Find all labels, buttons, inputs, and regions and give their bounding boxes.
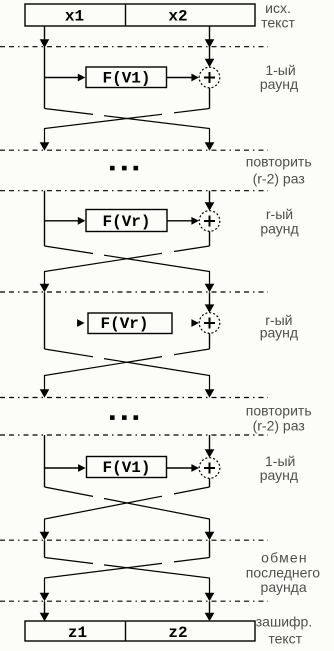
xor2 circle: [199, 211, 220, 232]
separator D4: [0, 291, 268, 293]
arrow crossing1 left end: [40, 142, 50, 151]
note repeat r-2 dec: [246, 402, 312, 433]
wire right rail top: [209, 26, 211, 59]
svg-text:повторить: повторить: [246, 402, 312, 418]
wire left rail round2: [44, 191, 46, 246]
wire F1 input: [45, 77, 79, 79]
arrow crossing5 left end: [40, 593, 50, 602]
wire crossing4 left-to-right: [45, 487, 210, 532]
xor1 plus: [204, 72, 215, 83]
wire right rail round3: [209, 292, 211, 304]
wire crossing4 right-to-left: [45, 487, 210, 532]
arrow F2 to xor2: [191, 217, 199, 225]
arrow crossing3 right end: [205, 389, 215, 398]
svg-text:раунд: раунд: [260, 221, 298, 237]
wire left rail round3: [44, 292, 46, 349]
svg-text:текст: текст: [261, 14, 295, 30]
xor4 plus: [204, 463, 215, 474]
arrow F1 to xor1: [191, 74, 199, 82]
svg-text:F(Vr): F(Vr): [102, 213, 150, 231]
note ciphertext: [256, 613, 312, 646]
xor3 plus: [204, 318, 215, 329]
xor2 plus: [204, 216, 215, 227]
arrow right into z box: [205, 613, 215, 622]
wire right stub to z box: [209, 601, 211, 613]
separator D1: [0, 46, 268, 48]
arrow into xor3: [205, 304, 215, 313]
note round 1 dec: [260, 453, 298, 483]
wire crossing1 left-to-right: [45, 109, 210, 143]
wire F2 input: [45, 220, 79, 222]
arrow into F1: [78, 74, 86, 82]
ellipsis dots B: [110, 415, 138, 420]
separator D7: [0, 539, 268, 541]
box z1z2 (ciphertext register): [25, 621, 255, 641]
arrow crossing1 right end: [205, 142, 215, 151]
wire right rail swap: [209, 540, 211, 557]
svg-text:F(V1): F(V1): [102, 459, 150, 477]
arrow F3 to xor3: [191, 319, 199, 327]
arrow crossing2 right end: [205, 284, 215, 293]
svg-text:F(V1): F(V1): [102, 70, 150, 88]
svg-text:z1: z1: [68, 624, 87, 642]
arrow crossing2 left end: [40, 284, 50, 293]
xor1 circle: [199, 67, 220, 88]
svg-text:зашифр.: зашифр.: [256, 613, 312, 629]
arrow into xor1: [205, 59, 215, 67]
wire crossing1 right-to-left: [45, 109, 210, 143]
separator D3: [0, 190, 268, 192]
note repeat r-2: [246, 154, 312, 187]
arrow into xor2: [205, 202, 215, 211]
svg-text:раунда: раунда: [261, 579, 307, 595]
svg-text:(r-2) раз: (r-2) раз: [253, 418, 305, 434]
wire left rail round4: [44, 435, 46, 487]
wire crossing5 left-to-right: [45, 558, 210, 594]
arrow crossing4 left end: [40, 532, 50, 541]
note round 1: [260, 62, 298, 92]
arrow crossing4 right end: [205, 532, 215, 541]
svg-text:x2: x2: [168, 7, 187, 25]
separator D6: [0, 434, 268, 436]
wire xor2 down: [209, 231, 211, 246]
wire F4 output: [167, 467, 192, 469]
svg-text:повторить: повторить: [246, 154, 312, 170]
svg-text:раунд: раунд: [260, 467, 298, 483]
svg-text:текст: текст: [268, 631, 302, 647]
svg-text:раунд: раунд: [260, 76, 298, 92]
arrow into F2: [78, 217, 86, 225]
separator D8: [0, 600, 268, 602]
arrow into xor4: [205, 449, 215, 458]
box F2: [86, 210, 167, 232]
wire F2 output: [167, 220, 192, 222]
arrow left into z box: [40, 613, 50, 622]
arrow left at D1: [40, 39, 50, 48]
arrow F4 to xor4: [191, 464, 199, 472]
wire xor1 down: [209, 88, 211, 109]
note round r: [260, 206, 298, 236]
divider x1|x2: [125, 4, 127, 26]
wire crossing3 left-to-right: [45, 349, 210, 390]
box F4: [87, 457, 167, 478]
arrow crossing3 left end: [40, 389, 50, 398]
note source text: [261, 0, 295, 30]
wire crossing2 left-to-right: [45, 246, 210, 284]
wire crossing5 right-to-left: [45, 558, 210, 594]
xor4 circle: [199, 458, 220, 479]
separator D5: [0, 397, 268, 399]
note round r dec: [260, 312, 298, 340]
xor3 circle: [199, 313, 220, 334]
wire crossing2 right-to-left: [45, 246, 210, 284]
wire left rail round1: [44, 26, 46, 109]
arrow right at D1: [205, 39, 215, 48]
wire F1 output: [167, 77, 192, 79]
arrow crossing5 right end: [205, 593, 215, 602]
arrow into F4: [78, 464, 86, 472]
svg-text:z2: z2: [168, 624, 187, 642]
svg-text:обмен: обмен: [261, 550, 308, 566]
divider z1|z2: [125, 621, 127, 641]
note last round swap: [246, 550, 321, 596]
box x1x2 (plaintext register): [25, 4, 255, 26]
wire F4 input: [45, 467, 79, 469]
wire xor4 down: [209, 478, 211, 487]
svg-text:(r-2) раз: (r-2) раз: [253, 171, 305, 187]
wire right rail round4: [209, 435, 211, 450]
wire xor3 down: [209, 333, 211, 349]
box F1: [86, 67, 167, 88]
wire crossing3 right-to-left: [45, 349, 210, 390]
separator D2: [0, 149, 268, 151]
wire left rail swap: [44, 540, 46, 557]
wire right rail round2: [209, 191, 211, 203]
svg-text:x1: x1: [65, 7, 84, 25]
arrow into F3: [77, 319, 85, 327]
svg-text:раунд: раунд: [260, 324, 298, 340]
wire left stub to z box: [44, 601, 46, 613]
ellipsis dots A: [110, 166, 138, 171]
svg-text:F(Vr): F(Vr): [100, 315, 148, 333]
box F3: [88, 313, 172, 334]
